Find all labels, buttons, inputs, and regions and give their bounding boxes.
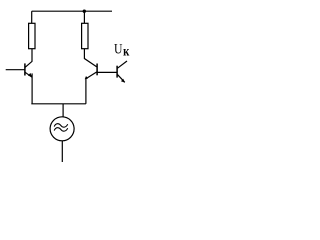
svg-text:U: U [114, 40, 123, 57]
svg-text:к: к [123, 43, 130, 58]
